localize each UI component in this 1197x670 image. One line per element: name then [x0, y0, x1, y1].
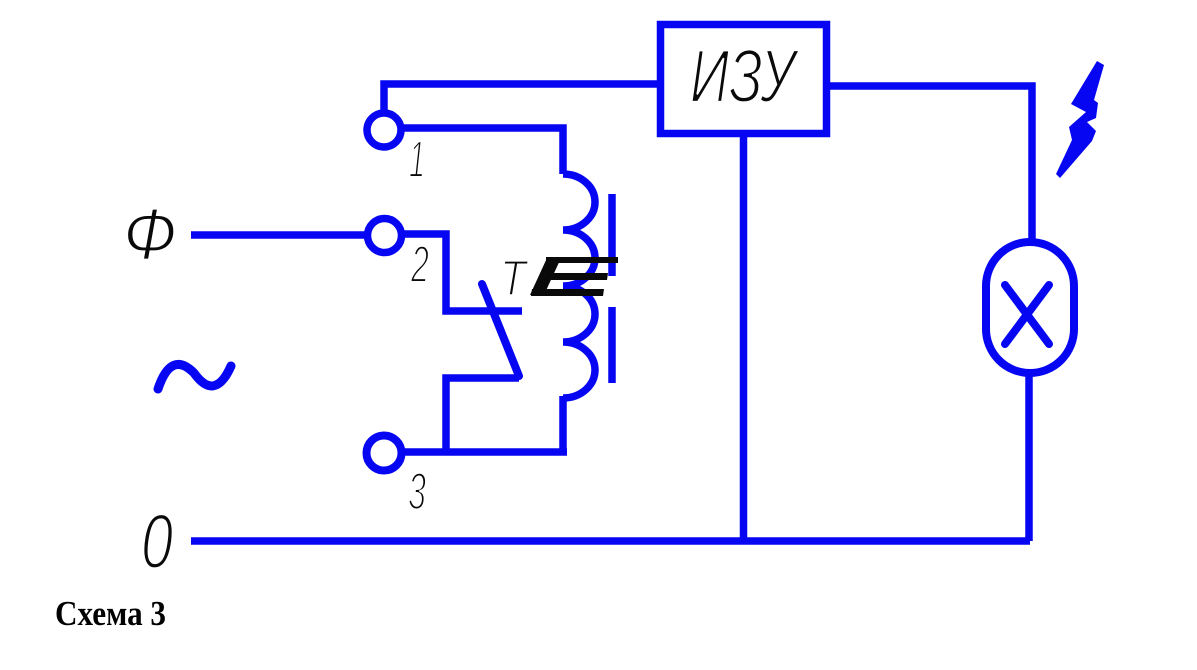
core bar lower [608, 307, 616, 383]
AC source symbol ~ [158, 364, 231, 389]
lamp X electrode mark [1005, 285, 1049, 344]
ignition pulse lightning arrow [1056, 61, 1104, 178]
svg-text:0: 0 [141, 499, 173, 585]
svg-text:1: 1 [409, 131, 425, 189]
svg-text:ИЗУ: ИЗУ [690, 34, 800, 118]
wire from winding bottom down [559, 396, 567, 452]
switch blade SA [482, 284, 519, 376]
wire ИЗУ bottom lead to neutral rail [740, 137, 748, 541]
wire terminal 3 to winding bottom [402, 448, 567, 456]
lamp EL capsule [986, 242, 1074, 373]
wire from terminal 1 up to ИЗУ box left side [384, 84, 657, 110]
ИЗУ box U1 [661, 25, 827, 134]
svg-text:Схема 3: Схема 3 [55, 594, 166, 633]
terminal 1 [367, 113, 401, 147]
wire ИЗУ box right to lamp top [830, 86, 1032, 242]
inductor winding T (4 arcs) [563, 174, 595, 398]
wire switch bottom to terminal 3 branch [446, 378, 519, 452]
svg-text:2: 2 [410, 236, 429, 294]
winding label E (bold black glyph) [530, 257, 618, 296]
terminal 2 [368, 219, 402, 253]
wire neutral 0 bottom rail [191, 537, 1030, 545]
core bar upper [608, 194, 616, 276]
wire phase Ф to terminal 2 [191, 231, 365, 239]
wire from terminal 1 right to winding T, and winding vertical [401, 128, 563, 174]
terminal 3 [367, 436, 402, 471]
svg-text:3: 3 [408, 463, 426, 521]
wire terminal 2 to switch fixed contact [402, 234, 522, 311]
svg-text:T: T [500, 250, 529, 306]
svg-text:Ф: Ф [123, 194, 177, 275]
wire lamp bottom lead [1025, 373, 1033, 541]
